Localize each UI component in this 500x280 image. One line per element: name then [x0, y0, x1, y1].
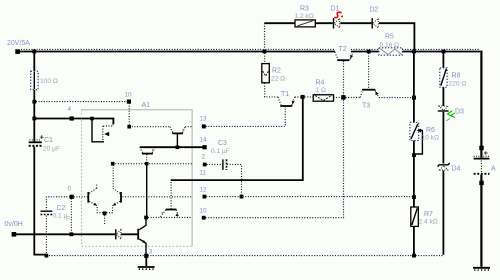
- svg-text:10: 10: [200, 208, 208, 215]
- transistor Q-out collector: [139, 218, 146, 230]
- wire D1 to D2: [340, 22, 371, 24]
- junction pin14 net x177: [176, 145, 180, 149]
- junction 0V wire x71: [70, 232, 74, 236]
- svg-text:2: 2: [202, 154, 206, 161]
- transistor Q-driver bar: [166, 209, 177, 211]
- svg-text:R6: R6: [426, 127, 435, 134]
- transistor T1 emitter arrow: [292, 101, 295, 105]
- wire Qa collector to box edge (dotted, pin13 internal): [185, 126, 192, 128]
- wire pin13 external to T1 base (dotted): [206, 107, 285, 126]
- wire 0V solid wire to diode: [16, 233, 115, 235]
- wire Qb base down to pin2 net (dotted): [146, 154, 148, 164]
- wire bottom ground rail (dotted): [46, 255, 443, 257]
- diode D1 bar: [333, 18, 335, 28]
- wire Qa base down to pin14 net: [176, 134, 178, 147]
- transistor diff-left bar: [87, 192, 89, 203]
- svg-text:10: 10: [125, 92, 133, 99]
- annotation green arrows on D3: [448, 111, 453, 117]
- zener D4 triangle (dotted, pointing up): [440, 166, 448, 170]
- resistor R4 box: [313, 95, 333, 101]
- wire diffR collector riser (dotted): [112, 165, 114, 189]
- terminal pin0: [70, 195, 74, 199]
- transistor Qb gray arrow: [152, 149, 155, 153]
- svg-text:D1: D1: [331, 6, 340, 13]
- svg-text:2.4 kΩ: 2.4 kΩ: [419, 219, 438, 226]
- transistor Qb diagonals: [140, 147, 155, 153]
- junction C3 drop on pin12 wire: [240, 195, 244, 199]
- capacitor C2 bottom plate dashed: [41, 214, 53, 216]
- wire C3 to pin12 net (dotted): [227, 164, 241, 195]
- wire internal pin10 net (dotted): [148, 217, 192, 219]
- potentiometer R6 box (selected dotted): [410, 122, 419, 140]
- wire pin4 solid wire from left column into A1: [34, 119, 113, 125]
- transistor diff-right base wire to pin12 net (dotted): [123, 196, 193, 198]
- svg-text:14: 14: [200, 137, 208, 144]
- svg-text:20 µF: 20 µF: [43, 146, 60, 153]
- svg-text:D3: D3: [455, 109, 464, 116]
- wire current dots on top rail: [21, 48, 479, 50]
- node IN+ 20V/5A terminal: [15, 49, 20, 54]
- transistor Q-driver gray arrow: [161, 212, 164, 215]
- wire internal pin2 net (dotted): [113, 163, 192, 165]
- junction pin12 at x414 column: [412, 195, 416, 199]
- wire diode to output transistor base: [121, 233, 137, 235]
- transistor Q-driver diagonals: [160, 210, 179, 218]
- wire pin0 riser x71 down to 0V wire (dotted): [70, 199, 72, 233]
- junction T1 emitter / R4 / pin11 riser: [301, 95, 305, 99]
- wire R8 to D3: [442, 87, 444, 106]
- terminal pin10 right: [202, 216, 206, 220]
- svg-text:3: 3: [149, 249, 153, 256]
- wire internal solid L to zener anode: [92, 119, 104, 142]
- wire D2 to rail x414 corner: [379, 23, 415, 50]
- svg-text:0.1 µF: 0.1 µF: [211, 148, 230, 155]
- battery A terminal bottom: [479, 181, 483, 185]
- svg-text:0: 0: [68, 186, 72, 193]
- transistor Qa bar: [172, 132, 183, 134]
- transistor T1 diagonals (dotted): [278, 97, 295, 105]
- wire T1 emitter to junction (dotted): [295, 96, 301, 98]
- junction left column y101: [32, 100, 36, 104]
- transistor diff-right diagonals: [106, 189, 120, 213]
- junction ground rail x46: [45, 254, 49, 258]
- resistor R3 box: [295, 20, 315, 27]
- capacitor C1 plus sign: [40, 135, 44, 139]
- junction pin2 net x146: [145, 162, 149, 166]
- capacitor C3 left plate: [222, 159, 224, 170]
- svg-text:D4: D4: [452, 166, 461, 173]
- svg-text:T1: T1: [281, 91, 289, 98]
- transistor Q-out emitter arrow: [142, 240, 145, 243]
- wire C2 bottom to ground rail (dotted): [45, 216, 47, 255]
- transistor Qa diagonals: [170, 127, 185, 133]
- transistor Qa gray arrow: [182, 129, 185, 133]
- svg-text:20V/5A: 20V/5A: [7, 40, 30, 47]
- svg-text:A1: A1: [142, 102, 151, 109]
- wire D3 to D4: [442, 112, 444, 164]
- transistor T3 diagonals (dotted): [360, 90, 379, 97]
- ground symbol right: [473, 267, 490, 269]
- diode D1 triangle (dotted): [334, 19, 340, 28]
- transistor T3 emitter arrow: [375, 91, 378, 95]
- wire left column down from rail: [33, 52, 35, 142]
- wire R7 bottom to ground rail: [413, 227, 415, 255]
- svg-text:13: 13: [200, 116, 208, 123]
- svg-text:4: 4: [68, 106, 72, 113]
- svg-text:10 kΩ: 10 kΩ: [422, 135, 439, 142]
- svg-text:1.2 kΩ: 1.2 kΩ: [295, 13, 314, 20]
- svg-text:D2: D2: [370, 7, 379, 14]
- wire diff tail stub (dotted): [104, 215, 106, 224]
- transistor Q-driver base riser to pin11 start (dotted): [170, 180, 172, 209]
- junction top rail x414: [412, 50, 416, 54]
- wire R4 to T2-base junction (dotted): [334, 97, 342, 99]
- capacitor C1 bottom plate (electrolytic dashed): [29, 145, 42, 147]
- svg-text:F: F: [66, 216, 70, 223]
- wire pin10 top wire from left column (dotted): [36, 101, 129, 103]
- transistor Qb bar: [142, 153, 153, 155]
- battery A selection dots above plate: [474, 155, 490, 157]
- wire T3 base riser from rail (dotted): [368, 53, 370, 89]
- op-amp regulator A1 outline box: [82, 110, 193, 246]
- svg-text:1 Ω: 1 Ω: [316, 87, 326, 94]
- wire T3 left to junction (dotted): [346, 97, 361, 99]
- wire pin10 stub into box (dotted): [128, 103, 130, 127]
- transistor T3 bar: [362, 89, 375, 91]
- battery A plus sign: [484, 151, 488, 155]
- transistor diff-left emitter arrow: [94, 203, 97, 206]
- diode D2 bar: [371, 18, 373, 28]
- wire internal pin13 net to Qa (dotted): [129, 126, 170, 128]
- wire D4 to ground rail end: [442, 171, 444, 255]
- transistor T2 diagonals (dotted): [335, 52, 353, 59]
- transistor diff-right bar: [120, 192, 122, 203]
- terminal pin13: [202, 124, 206, 128]
- junction top rail x264 (R2/R3 riser): [263, 50, 267, 54]
- svg-text:0v/0H: 0v/0H: [5, 221, 23, 228]
- junction pin2 net x112: [111, 162, 115, 166]
- diode D2 triangle (dotted): [373, 19, 378, 28]
- node 0V terminal: [12, 232, 17, 237]
- zener arrow: [104, 132, 109, 137]
- ground symbol under A1 pin3: [138, 266, 155, 268]
- svg-text:A: A: [491, 166, 496, 173]
- junction R4 / T2 base / T3 / pin10 column: [341, 95, 345, 99]
- wire pin10 external to T2 base column (dotted): [206, 61, 344, 218]
- junction internal x129 y126: [127, 125, 131, 129]
- capacitor C3 right plate: [226, 159, 228, 170]
- resistor R2 box: [262, 64, 270, 83]
- wire R6 wiper loop: [416, 131, 422, 155]
- wire R2 bottom to T1 collector (dotted): [265, 83, 278, 97]
- transistor diff-left base wire from pin0 (dotted): [74, 196, 88, 198]
- wire T3 emitter to x414 column (dotted): [379, 97, 412, 99]
- transistor Q-driver emitter arrow: [175, 213, 178, 217]
- junction top rail x368 (T3 base): [367, 50, 371, 54]
- terminal pin4: [70, 116, 74, 120]
- zener D4 bar with wings: [438, 163, 450, 167]
- wire riser rail to R3 chain (dotted): [264, 23, 266, 49]
- diode internal D-base triangle (dotted): [116, 230, 121, 239]
- svg-text:R3: R3: [300, 6, 309, 13]
- wire R6 bottom to R7: [413, 141, 415, 207]
- transistor T1 bar: [280, 105, 292, 107]
- junction top rail x34: [32, 50, 36, 54]
- transistor T2 emitter arrow: [350, 55, 353, 59]
- terminal pin14: [203, 145, 207, 149]
- capacitor C1 selection dots: [30, 139, 42, 141]
- svg-text:C3: C3: [218, 140, 227, 147]
- capacitor C1 top plate: [29, 141, 42, 143]
- resistor R2 riser top (dotted): [264, 53, 266, 63]
- terminal pin10 top: [127, 100, 131, 104]
- wire top supply rail right segment with corner down: [402, 51, 480, 53]
- svg-text:100 Ω: 100 Ω: [40, 78, 58, 85]
- svg-text:R4: R4: [316, 80, 325, 87]
- junction ground rail x414 (R7): [412, 254, 416, 258]
- svg-text:11: 11: [200, 170, 207, 177]
- wire R8 branch from rail: [442, 52, 444, 68]
- resistor R7 box: [411, 207, 419, 226]
- diode internal D-base bar: [115, 229, 117, 239]
- potentiometer R6 wiper arrow: [417, 129, 421, 133]
- svg-text:R7: R7: [424, 211, 433, 218]
- svg-text:R2: R2: [272, 68, 281, 75]
- wire x414 column rail to R6: [413, 52, 415, 122]
- diode D3 triangle (dotted, pointing down): [439, 106, 448, 110]
- svg-text:R5: R5: [385, 34, 394, 41]
- terminal pin2: [203, 163, 207, 167]
- wire pin2 to C3 (dotted): [207, 163, 223, 165]
- svg-text:C2: C2: [57, 205, 66, 212]
- wire center solid vertical Qb-base down to output transistor: [146, 164, 148, 218]
- resistor R8 box (selected dotted): [440, 68, 447, 87]
- transistor diff-right emitter arrow: [113, 203, 116, 206]
- transistor Q-out bar: [137, 229, 139, 240]
- battery A bottom plate (dashed): [474, 173, 490, 175]
- svg-text:12: 12: [200, 187, 208, 194]
- junction R6 wiper at column: [412, 153, 416, 157]
- resistor R5 box (in series on rail): [379, 48, 402, 55]
- wire top supply rail left segment: [17, 51, 335, 53]
- annotation red mark on D1: [334, 12, 341, 17]
- diode D3 bar: [438, 110, 449, 112]
- wire pin0 horizontal to C2 branch (dotted): [46, 197, 70, 210]
- battery A top plate: [474, 158, 490, 160]
- svg-text:T2: T2: [339, 46, 347, 53]
- svg-text:C1: C1: [44, 137, 53, 144]
- wire pin3 stub to ground: [145, 255, 147, 266]
- svg-text:22 Ω: 22 Ω: [271, 76, 285, 83]
- wire R3 to D1: [315, 22, 332, 24]
- capacitor C2 top plate: [41, 210, 53, 212]
- junction left column y118: [32, 117, 36, 121]
- terminal pin12: [203, 195, 207, 199]
- svg-text:220 Ω: 220 Ω: [449, 81, 467, 88]
- junction T3 wire at x414: [412, 96, 416, 100]
- wire pin12 external to R6/R7 column (dotted): [206, 196, 414, 198]
- battery A terminal top: [479, 146, 483, 150]
- transistor Q-out emitter: [139, 239, 146, 255]
- wire top supply rail mid segment: [351, 51, 379, 53]
- zener reference internal (dotted): [103, 119, 113, 142]
- svg-text:T3: T3: [362, 103, 370, 110]
- junction top rail x443 (R8 branch): [442, 50, 446, 54]
- junction ground rail x146 (pin3): [144, 254, 148, 258]
- wire left column below C1 to bottom corner: [34, 147, 46, 255]
- transistor T2 bar: [337, 59, 349, 61]
- junction internal pin4 branch x92: [90, 117, 94, 121]
- wire battery bottom to ground: [480, 175, 482, 267]
- wire pin11 solid net from inside box to right: [171, 97, 303, 180]
- svg-text:0.16 Ω: 0.16 Ω: [380, 42, 400, 49]
- fuse-resistor 100 ohm box: [31, 71, 38, 90]
- wire R3 chain left solid: [265, 22, 296, 24]
- wire pin14 solid net: [140, 146, 205, 148]
- wire junction to R4 (dotted): [305, 96, 313, 98]
- svg-text:R8: R8: [452, 73, 461, 80]
- junction diff tail: [103, 211, 107, 215]
- battery A center dots: [480, 161, 482, 173]
- junction pin10 net x146: [144, 216, 148, 220]
- transistor diff-left diagonals: [89, 185, 103, 213]
